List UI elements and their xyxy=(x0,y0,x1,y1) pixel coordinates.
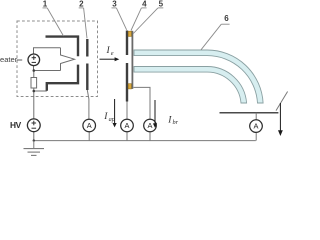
svg-text:2: 2 xyxy=(79,0,84,8)
svg-text:br: br xyxy=(173,119,179,126)
svg-text:A: A xyxy=(87,121,92,130)
svg-text:A: A xyxy=(125,121,130,130)
svg-text:6: 6 xyxy=(224,14,229,23)
svg-text:Heater: Heater xyxy=(0,55,18,64)
svg-text:A: A xyxy=(254,122,259,131)
svg-text:HV: HV xyxy=(10,120,22,130)
svg-text:e: e xyxy=(111,50,114,57)
svg-text:3: 3 xyxy=(112,0,117,8)
svg-text:A: A xyxy=(148,121,153,130)
svg-text:1: 1 xyxy=(43,0,48,8)
svg-text:5: 5 xyxy=(159,0,164,8)
svg-text:4: 4 xyxy=(142,0,147,8)
svg-text:ap: ap xyxy=(109,116,115,123)
